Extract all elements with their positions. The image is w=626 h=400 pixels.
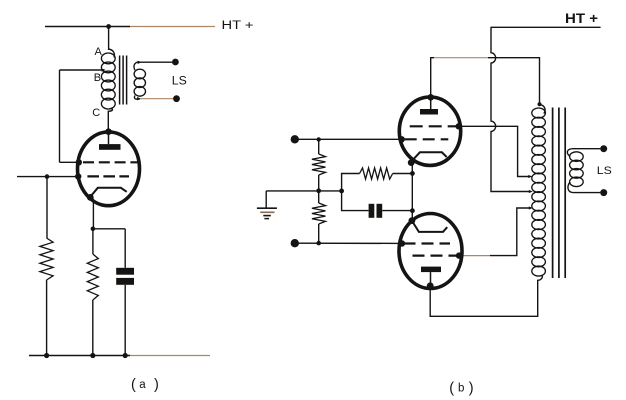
svg-text:a: a: [139, 379, 146, 391]
svg-text:C: C: [92, 107, 100, 119]
svg-text:HT +: HT +: [565, 10, 598, 26]
svg-text:): ): [469, 380, 474, 396]
svg-text:LS: LS: [172, 74, 187, 88]
svg-text:(: (: [131, 377, 136, 393]
svg-text:(: (: [449, 380, 454, 396]
svg-text:): ): [154, 377, 159, 393]
svg-text:HT +: HT +: [222, 18, 254, 32]
svg-text:B: B: [94, 72, 101, 84]
svg-text:b: b: [458, 382, 464, 394]
svg-text:LS: LS: [597, 165, 612, 177]
svg-text:A: A: [95, 46, 103, 58]
